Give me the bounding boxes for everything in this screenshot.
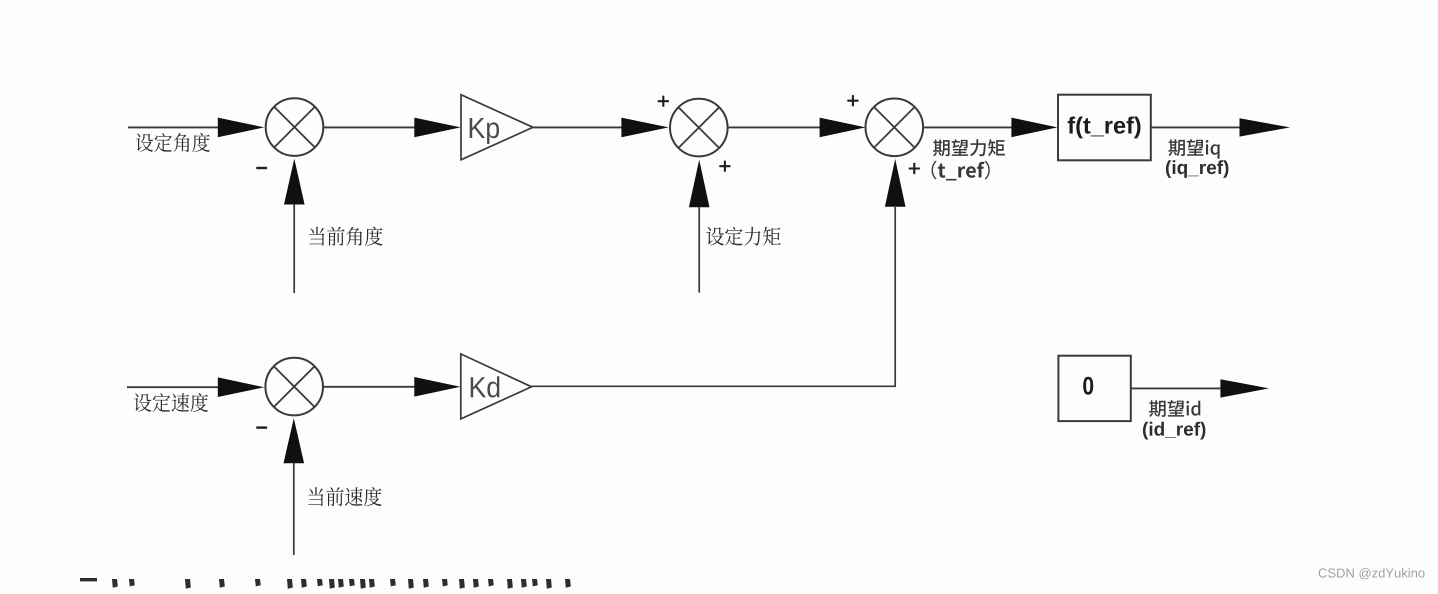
label 当前速度 — [308, 487, 381, 506]
cropped heading 电机力矩速度控制模式 (only stroke tips visible at bottom edge) — [80, 578, 571, 589]
wire: f(t_ref) output — [1151, 126, 1240, 128]
label 设定力矩 — [706, 227, 781, 246]
summing junction S3 — [866, 99, 924, 157]
arrowhead into summing junction S2 — [621, 118, 668, 138]
sign plus at S3 input (top-left) — [847, 95, 858, 106]
wire: block 0 output — [1131, 387, 1221, 389]
label 期望id — [1149, 400, 1200, 417]
label (iq_ref) — [1166, 160, 1229, 178]
block 0 (id reference) — [1058, 356, 1130, 421]
label 当前角度 — [309, 227, 382, 246]
arrowhead output iq — [1240, 118, 1291, 136]
sign plus at S2 input (bottom-right) — [719, 161, 730, 172]
sign plus at S2 input (top-left) — [658, 96, 669, 107]
wire: input 设定速度 — [127, 386, 219, 388]
arrowhead output id — [1220, 379, 1269, 397]
gain label Kd — [471, 376, 500, 397]
arrowhead 当前速度 into S4 — [284, 418, 305, 463]
summing junction S2 — [670, 99, 728, 157]
arrowhead 当前角度 into S1 — [284, 159, 305, 205]
sign minus at S4 — [256, 426, 267, 428]
wire: 当前速度 feedback vertical — [293, 463, 295, 555]
block f(t_ref) — [1058, 95, 1151, 161]
arrowhead into summing junction S3 — [820, 118, 866, 138]
arrowhead into block f(t_ref) — [1011, 118, 1057, 138]
block label f(t_ref) — [1068, 117, 1141, 139]
wire: S3 to block f(t_ref) — [923, 126, 1012, 128]
wire: 当前角度 feedback vertical — [293, 204, 295, 293]
arrowhead Kd branch into S3 — [885, 159, 906, 207]
label (id_ref) — [1143, 422, 1206, 440]
summing junction S1 — [266, 98, 324, 156]
wire: S2 to summing junction S3 — [728, 126, 820, 128]
label 设定速度 — [134, 393, 208, 412]
wire: Kp to summing junction S2 — [533, 126, 622, 128]
wire: Kd output up to S3 — [532, 207, 896, 386]
arrowhead into summing junction S1 — [218, 118, 264, 138]
summing junction S4 — [265, 358, 323, 416]
arrowhead into gain Kp — [414, 118, 460, 138]
gain block Kp (triangle) — [461, 95, 533, 160]
arrowhead 设定力矩 into S2 — [689, 160, 710, 208]
gain block Kd (triangle) — [461, 354, 532, 419]
wire: input 设定角度 — [128, 126, 219, 128]
label （t_ref） — [932, 161, 990, 181]
arrowhead into gain Kd — [414, 377, 460, 397]
arrowhead into summing junction S4 — [218, 377, 264, 397]
sign plus at S3 input (bottom-right) — [909, 163, 920, 174]
label 期望力矩 — [933, 139, 1005, 156]
wire: S4 to Kd — [323, 386, 415, 388]
gain label Kp — [470, 118, 499, 144]
block label 0 — [1083, 377, 1093, 395]
label 期望iq — [1168, 139, 1219, 159]
wire: 设定力矩 feed vertical — [698, 207, 700, 293]
watermark CSDN @zdYukino — [1319, 568, 1425, 579]
sign minus at S1 — [256, 167, 267, 169]
wire: S1 to Kp — [323, 126, 415, 128]
label 设定角度 — [136, 133, 210, 152]
